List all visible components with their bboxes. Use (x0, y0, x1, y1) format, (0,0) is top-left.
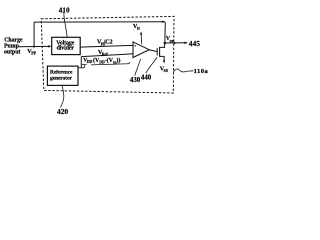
svg-text:430: 430 (130, 77, 141, 84)
wire: reference generator output riser (80, 57, 82, 68)
svg-text:PP: PP (31, 51, 36, 56)
comparator 430 (133, 42, 149, 58)
wire: VRef to comparator - input (81, 54, 133, 57)
svg-text:(VDD-(Vtp)): (VDD-(Vtp)) (93, 57, 120, 65)
label: Charge Pump output (4, 37, 23, 55)
VSS arrow and label (160, 60, 169, 73)
leader line 410 (64, 11, 67, 37)
junction dot at VPP node (33, 45, 35, 47)
svg-text:410: 410 (59, 5, 70, 14)
wire: top VPP rail (34, 21, 163, 23)
dot at boundary crossing (174, 42, 176, 44)
svg-text:N: N (137, 26, 140, 31)
node VN arrow + label (133, 23, 142, 44)
svg-text:Ref: Ref (102, 52, 109, 57)
arrowhead at end of top rail (162, 21, 165, 24)
svg-text:generator: generator (50, 76, 73, 82)
svg-text:Reference: Reference (50, 69, 73, 75)
node dot: output node (164, 42, 167, 45)
svg-text:DD: DD (87, 60, 93, 64)
arrowhead into voltage divider (48, 45, 52, 48)
svg-text:110a: 110a (194, 68, 209, 75)
reference generator block (47, 66, 78, 85)
node VPP label (27, 49, 36, 56)
transistor 440 (MOSFET) (157, 43, 164, 61)
power VDD symbol (78, 58, 93, 68)
leader line 440 (146, 57, 157, 73)
svg-text:SS: SS (164, 68, 169, 73)
wire: output node to 445 (165, 42, 185, 44)
svg-text:440: 440 (141, 74, 152, 81)
svg-text:445: 445 (189, 39, 200, 48)
svg-text:output: output (4, 49, 21, 55)
svg-text:divider: divider (57, 45, 75, 51)
wire: charge pump output to voltage divider input (17, 45, 49, 47)
wire: down from rail corner to output node (164, 22, 167, 43)
leader line 430 (135, 59, 141, 76)
boundary box 110a (dashed) (41, 16, 174, 93)
svg-text:pp: pp (170, 38, 175, 43)
leader line 420 (61, 86, 64, 108)
arrowhead 445 (184, 42, 188, 45)
wire: divider output to comparator + input, labeled VPP/C2 (80, 45, 133, 47)
wire: riser from VPP node to top rail (33, 22, 35, 46)
svg-text:/C2: /C2 (103, 40, 113, 46)
svg-text:420: 420 (57, 107, 68, 116)
reference numeral 110a with squiggle leader (173, 68, 208, 75)
VPP output label (166, 36, 175, 43)
voltage divider block (52, 37, 80, 54)
wire: comparator output to transistor gate (149, 50, 157, 52)
annotation (VDD-(Vtp)) (91, 57, 130, 65)
